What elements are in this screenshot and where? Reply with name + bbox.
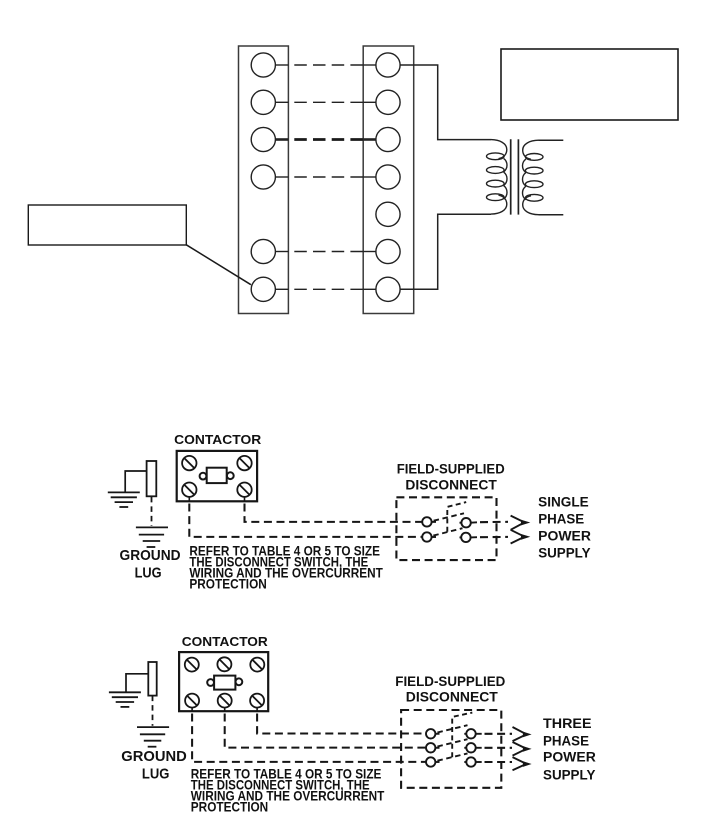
dashed wire K2 terminal 6 to disconnect top pole (257, 714, 426, 734)
wire B: TB2 terminal 7 to transformer primary bottom (400, 214, 491, 289)
K1 coil (200, 468, 234, 483)
ground lug (single phase) (147, 461, 157, 496)
wire lug to chassis ground (125, 471, 146, 492)
dashed wire S2 pole 3 to supply arrow (485, 761, 513, 763)
dashed wire lug to earth ground (151, 497, 153, 526)
svg-text:FIELD-SUPPLIED: FIELD-SUPPLIED (397, 460, 505, 476)
svg-text:DISCONNECT: DISCONNECT (405, 477, 497, 493)
earth ground symbol (three phase) (137, 727, 169, 747)
S2 linkage (dashed) (452, 713, 472, 758)
S2 pole 1 right contact (464, 729, 481, 738)
svg-text:POWER: POWER (543, 750, 596, 765)
dashed wire K2 terminal 5 to disconnect middle pole (225, 714, 426, 748)
svg-text:PHASE: PHASE (543, 733, 589, 748)
S1 linkage (dashed) (447, 502, 466, 532)
TB1 terminal 3 (251, 127, 288, 151)
svg-text:GROUND: GROUND (121, 748, 187, 765)
S1 bottom pole right contact (460, 533, 478, 542)
K2 screw terminal 4 (185, 694, 199, 712)
disconnect switch S1 enclosure (dashed) (396, 497, 496, 560)
dashed wire K1 terminal 3 to disconnect bottom pole (189, 504, 422, 537)
terminal strip TB2 (363, 46, 414, 314)
dashed wire S2 pole 1 to supply arrow (485, 733, 513, 735)
ground lug (three phase) (148, 662, 156, 696)
terminal strip TB1 (239, 46, 289, 314)
TB1 terminal 4 (251, 165, 288, 189)
TB1 terminal 5 (251, 239, 288, 263)
svg-text:GROUND: GROUND (120, 547, 181, 564)
transformer T1 core (511, 139, 519, 214)
supply arrow 3 (three phase) (513, 757, 532, 770)
K2 screw terminal 1 (185, 658, 199, 672)
svg-text:LUG: LUG (142, 765, 170, 782)
K2 coil (207, 676, 242, 690)
label box (left) (28, 205, 186, 245)
S2 pole 2 right contact (464, 743, 481, 752)
TB2 terminal 4 (363, 165, 400, 189)
svg-text:PHASE: PHASE (538, 511, 584, 526)
svg-text:LUG: LUG (135, 565, 162, 582)
svg-text:DISCONNECT: DISCONNECT (406, 689, 498, 705)
S1 top pole blade (dashed) (434, 513, 464, 520)
chassis ground symbol (single phase) (108, 492, 140, 507)
jumper wire row 3 (dashed, heavy) (294, 138, 363, 141)
TB2 terminal 5 (376, 202, 400, 226)
label GROUND LUG (single phase) (120, 547, 181, 581)
S2 pole 3 blade (dashed) (437, 753, 467, 760)
jumper wire row 4 (dashed) (294, 176, 363, 178)
jumper wire row 2 (dashed) (294, 101, 363, 103)
transformer T1 secondary winding (522, 140, 543, 215)
S1 bottom pole blade (dashed) (433, 528, 462, 535)
svg-text:SINGLE: SINGLE (538, 495, 589, 510)
transformer T1 primary winding (487, 140, 508, 215)
label THREE PHASE POWER SUPPLY (543, 716, 596, 782)
label FIELD-SUPPLIED DISCONNECT (single phase) (397, 460, 505, 492)
jumper wire row 1 (dashed) (294, 64, 363, 66)
svg-text:CONTACTOR: CONTACTOR (174, 432, 262, 447)
TB2 terminal 1 (363, 53, 400, 77)
jumper wire row 7 (dashed) (294, 288, 363, 290)
svg-text:PROTECTION: PROTECTION (191, 798, 268, 814)
leader line from left label box to TB1 terminal 6 (186, 245, 251, 285)
dashed wire S1 top pole to supply arrow (480, 521, 508, 523)
wire lug to chassis ground (three phase) (126, 674, 148, 692)
svg-text:THREE: THREE (543, 716, 592, 731)
note text (single phase) (189, 542, 383, 591)
TB2 terminal 3 (363, 127, 400, 151)
S2 pole 3 right contact (464, 757, 481, 766)
supply arrow 2 (three phase) (513, 742, 532, 756)
supply arrow 1 (single phase) (511, 516, 531, 530)
svg-text:PROTECTION: PROTECTION (189, 576, 266, 592)
dashed wire K1 terminal 4 to disconnect top pole (245, 504, 422, 522)
K2 screw terminal 3 (250, 658, 264, 672)
S2 pole 2 blade (dashed) (437, 739, 467, 746)
contactor K1 body (177, 451, 257, 501)
svg-text:POWER: POWER (538, 528, 591, 543)
K2 screw terminal 5 (218, 694, 232, 712)
wire: secondary bottom lead (539, 214, 564, 216)
K2 screw terminal 6 (250, 694, 264, 712)
chassis ground symbol (three phase) (109, 692, 141, 707)
jumper wire row 6 (dashed) (294, 251, 363, 253)
label GROUND LUG (three phase) (121, 748, 187, 782)
K2 screw terminal 2 (217, 657, 231, 671)
dashed wire S1 bottom pole to supply arrow (480, 536, 508, 538)
TB1 terminal 6 (251, 277, 288, 301)
S2 pole 2 left contact (426, 743, 440, 752)
TB2 terminal 7 (363, 277, 400, 301)
svg-text:FIELD-SUPPLIED: FIELD-SUPPLIED (395, 673, 505, 689)
S2 pole 3 left contact (426, 757, 440, 766)
svg-text:SUPPLY: SUPPLY (538, 546, 590, 561)
supply arrow 2 (single phase) (511, 530, 531, 544)
wire: secondary top lead (539, 139, 564, 141)
disconnect switch S2 enclosure (dashed) (401, 710, 501, 788)
wire A: TB2 terminal 1 to transformer primary top (400, 65, 491, 140)
S1 top pole left contact (422, 517, 436, 526)
dashed wire lug to earth ground (three phase) (152, 696, 154, 726)
note text (three phase) (191, 766, 385, 815)
S1 bottom pole left contact (422, 532, 436, 541)
K1 screw terminal 1 (182, 456, 196, 470)
svg-text:CONTACTOR: CONTACTOR (182, 634, 269, 649)
TB2 terminal 2 (363, 90, 400, 114)
label box (top right) (501, 49, 678, 120)
TB1 terminal 2 (251, 90, 288, 114)
contactor K2 body (179, 652, 268, 711)
supply arrow 1 (three phase) (513, 727, 532, 741)
S1 top pole right contact (460, 518, 478, 527)
TB2 terminal 6 (363, 239, 400, 263)
earth ground symbol (single phase) (136, 527, 168, 547)
S2 pole 1 left contact (426, 729, 440, 738)
label SINGLE PHASE POWER SUPPLY (538, 495, 591, 561)
svg-text:SUPPLY: SUPPLY (543, 767, 595, 782)
K1 screw terminal 4 (237, 483, 251, 502)
K1 screw terminal 3 (182, 483, 196, 502)
label FIELD-SUPPLIED DISCONNECT (three phase) (395, 673, 505, 705)
dashed wire K2 terminal 4 to disconnect bottom pole (192, 714, 426, 762)
dashed wire S2 pole 2 to supply arrow (485, 747, 513, 749)
TB1 terminal 1 (251, 53, 288, 77)
K1 screw terminal 2 (237, 456, 251, 470)
S2 pole 1 blade (dashed) (437, 725, 467, 732)
